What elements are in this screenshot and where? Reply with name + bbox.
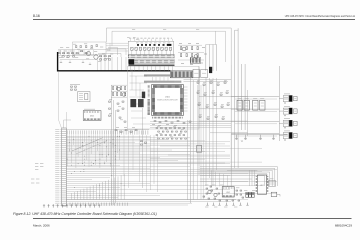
audio IC U302 [83, 109, 101, 120]
discrete cluster bottom [203, 186, 244, 201]
pin stub comb upper [66, 130, 149, 135]
svg-text:UHF 438-470 MHz: Circuit Board: UHF 438-470 MHz: Circuit Board/Schematic… [285, 15, 356, 18]
dark component CR2 [209, 67, 212, 73]
wire junction dots [67, 136, 125, 196]
wires to speaker jacks [231, 97, 283, 136]
component cluster mid right [197, 80, 230, 119]
pin stub comb lower [70, 203, 128, 206]
overhead routing wires [107, 28, 232, 65]
resistor row R111-R116 [62, 56, 111, 60]
svg-text:March, 2006: March, 2006 [33, 224, 50, 228]
pin column left of U101 [147, 99, 149, 115]
connector J2 contact squares [131, 47, 172, 54]
connector J1 pin stubs and labels [55, 129, 62, 205]
wires right of U101 [184, 87, 188, 111]
labels bottom cluster [205, 179, 273, 207]
logic IC U502 [222, 187, 234, 197]
header rule [33, 19, 355, 21]
connector J1 body [62, 128, 66, 206]
component value labels audio [58, 44, 113, 62]
wire bus vertical x190-199 [188, 66, 200, 203]
decoupling capacitors under U101 [152, 121, 191, 126]
connector J3 striped block [170, 71, 192, 78]
bus lines below U101 [150, 122, 231, 128]
transistor Q502 [214, 193, 217, 196]
wires J1 top entry [59, 72, 71, 129]
components C310 [141, 141, 147, 146]
bottom bus pair [66, 200, 236, 205]
resistor network R101-R110 [58, 51, 111, 57]
wire verticals x150-158 [151, 135, 158, 192]
connector J2 pin band lower [128, 60, 174, 63]
note text block left margin [31, 164, 43, 184]
relay blocks K1-K4 [237, 99, 265, 110]
connector J2 bottom bar [128, 65, 174, 66]
speaker jack J11 [283, 106, 297, 116]
shield box around audio section [73, 42, 107, 55]
wire mesh vertical drops [67, 135, 119, 168]
component row below U302 [115, 128, 137, 133]
wire band x197-203 [198, 85, 204, 200]
connector J2 bottom pin stubs [131, 66, 173, 71]
pin row below U101 [153, 117, 183, 119]
wire rows right extension [150, 142, 230, 164]
svg-text:U302: U302 [90, 115, 94, 117]
pin header row P2 [144, 81, 181, 83]
svg-text:U502: U502 [226, 192, 230, 194]
filter block FL301 [130, 92, 145, 108]
wire drops to bottom cluster [212, 171, 228, 187]
wire drops to ground bus [98, 57, 127, 71]
ground symbols jack return [231, 135, 287, 140]
wire mesh vertical drops right [124, 135, 147, 192]
transistor Q202 [194, 55, 198, 59]
microcontroller U101 [152, 85, 184, 116]
shield box MCU section [128, 66, 199, 129]
svg-text:6881094C29: 6881094C29 [335, 224, 353, 228]
hatched block FL1 [190, 57, 200, 63]
wire bus loop to U501 [200, 167, 277, 186]
wires into U501 left [250, 170, 255, 186]
transistor Q201 [182, 47, 186, 51]
connector J2 pin label row [136, 43, 171, 46]
transistor Q302 [122, 93, 126, 97]
wire bus vertical x142 [142, 108, 144, 188]
regulator block U301 [78, 92, 90, 102]
discrete parts column x108-126 [109, 100, 127, 123]
connector J2 top pin stubs [129, 38, 173, 41]
transistor Q101 [87, 52, 91, 56]
wires audio to connector J2 [106, 43, 128, 51]
wire mesh rows upper [66, 136, 262, 168]
jack column feed line [278, 66, 280, 141]
labels audio PA [179, 44, 207, 65]
footer rule [33, 218, 352, 220]
ground row bottom cluster [206, 203, 248, 206]
wire drop x231 [230, 135, 232, 168]
pin column left upper of U101 [148, 85, 150, 98]
pin header row P1 [144, 74, 170, 76]
transistor Q501 [208, 190, 211, 193]
component Y501 [269, 180, 275, 186]
speaker jack J12 [283, 119, 297, 129]
EEPROM U501 [256, 175, 267, 194]
wires bottom interconnect [200, 168, 257, 187]
wire thick ground bus [58, 52, 171, 71]
resistor group R201 [178, 45, 204, 60]
jumper block JU1 [246, 192, 254, 197]
connector J2 pin band upper [128, 55, 174, 58]
wire bus vertical x111-115 [112, 85, 116, 205]
wire mesh rows lower [66, 170, 277, 200]
wire bus vertical x206-217 [206, 45, 217, 71]
bus taper diagonal [72, 138, 107, 155]
speaker jack J10 [283, 94, 297, 104]
wires P1 to P2 [153, 77, 169, 81]
connector J2 outline [128, 41, 174, 54]
resistor group R301 [111, 85, 127, 97]
svg-text:8-16: 8-16 [33, 14, 40, 18]
svg-text:U501: U501 [260, 185, 264, 187]
component C510 [271, 192, 280, 196]
ground symbols audio section [60, 61, 91, 65]
capacitor bank below U101 [156, 126, 187, 139]
staircase drops to bottom bus [72, 174, 125, 199]
wire feed x247 [247, 90, 249, 136]
wires MCU to right bus [184, 79, 248, 133]
filter blocks FL2 FL3 [193, 69, 207, 77]
speaker jack J13 [283, 131, 297, 141]
component R520 [197, 146, 202, 153]
transistor Q301 [117, 87, 121, 91]
capacitors C301 [70, 84, 80, 90]
wire mesh audio section [58, 50, 108, 60]
connector J2 keying block [129, 59, 135, 64]
wires audio right section [98, 48, 126, 58]
wires shield box left [130, 69, 151, 124]
svg-text:Figure 8-12. UHF 438-470 MHz: Figure 8-12. UHF 438-470 MHz Complete Co… [13, 212, 157, 216]
capacitor group C101-C105 [76, 45, 98, 48]
audio amplifier U401 [94, 55, 98, 59]
wire bus vertical x206-217 lower [206, 78, 217, 186]
wire bus vertical x231 lower [231, 130, 238, 168]
ground tick row bottom left [43, 204, 100, 207]
wire bus vertical x231-245 [231, 28, 245, 130]
svg-text:MC68HC11 MICROCONTROLLER: MC68HC11 MICROCONTROLLER [157, 100, 177, 102]
